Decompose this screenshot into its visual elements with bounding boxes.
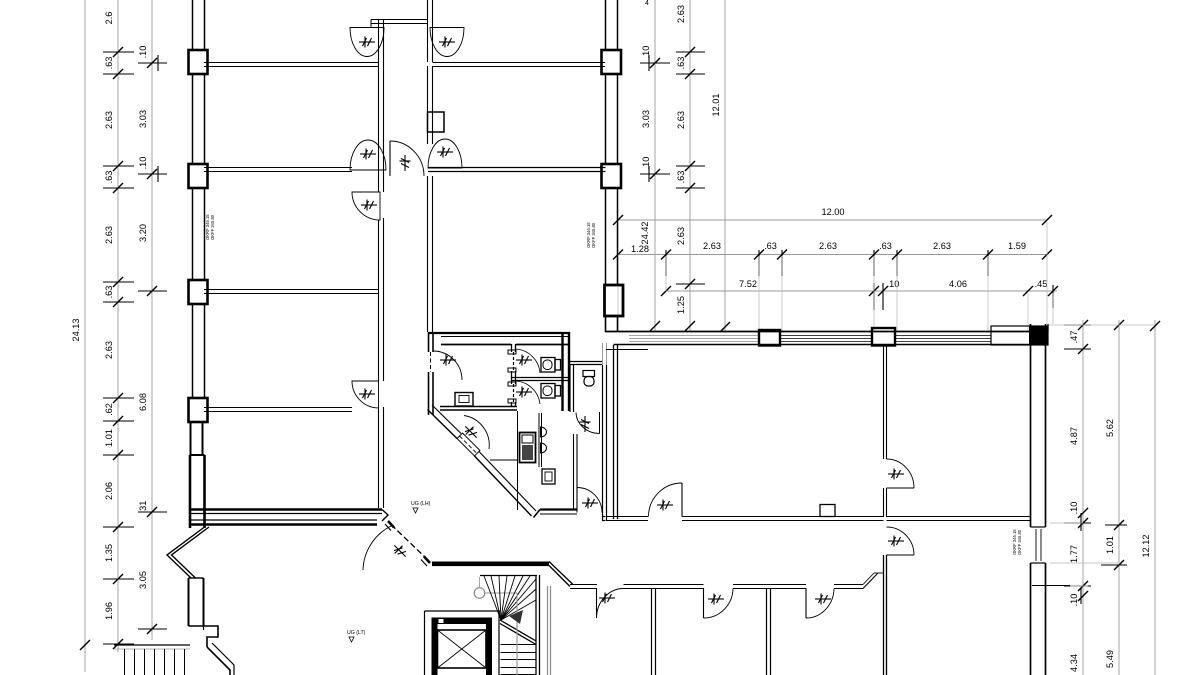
svg-text:4: 4 [645, 0, 649, 7]
svg-text:3.20: 3.20 [138, 224, 148, 242]
svg-text:1.01: 1.01 [104, 429, 114, 447]
svg-text:3.05: 3.05 [138, 571, 148, 589]
svg-text:.10: .10 [641, 46, 651, 59]
svg-text:.63: .63 [104, 286, 114, 299]
svg-text:2.63: 2.63 [676, 227, 686, 245]
svg-text:3.03: 3.03 [641, 110, 651, 128]
svg-text:.10: .10 [138, 46, 148, 59]
svg-text:.10: .10 [887, 279, 900, 289]
svg-text:.10: .10 [138, 157, 148, 170]
svg-text:4.34: 4.34 [1069, 654, 1079, 672]
svg-text:2.63: 2.63 [676, 5, 686, 23]
svg-text:.63: .63 [676, 171, 686, 184]
svg-text:12.00: 12.00 [822, 207, 845, 217]
svg-text:2.63: 2.63 [104, 111, 114, 129]
svg-text:.10: .10 [1069, 594, 1079, 607]
svg-text:2.06: 2.06 [104, 482, 114, 500]
svg-text:1.96: 1.96 [104, 602, 114, 620]
svg-text:.62: .62 [104, 403, 114, 416]
svg-text:.45: .45 [1035, 279, 1048, 289]
svg-text:12.01: 12.01 [711, 94, 721, 117]
svg-text:24.42: 24.42 [640, 222, 650, 245]
svg-text:1.01: 1.01 [1105, 536, 1115, 554]
svg-text:.63: .63 [879, 241, 892, 251]
svg-text:.31: .31 [138, 501, 148, 514]
svg-text:.10: .10 [1069, 502, 1079, 515]
svg-text:4.06: 4.06 [949, 279, 967, 289]
svg-text:.63: .63 [104, 171, 114, 184]
svg-text:12.12: 12.12 [1141, 535, 1151, 558]
svg-text:.63: .63 [764, 241, 777, 251]
svg-text:OKFF 345.80: OKFF 345.80 [1017, 529, 1022, 555]
svg-text:5.49: 5.49 [1105, 650, 1115, 668]
svg-text:1.77: 1.77 [1069, 545, 1079, 563]
svg-text:7.52: 7.52 [739, 279, 757, 289]
svg-text:4.87: 4.87 [1069, 427, 1079, 445]
svg-text:UG (LH): UG (LH) [411, 501, 431, 507]
svg-text:.63: .63 [676, 57, 686, 70]
svg-text:OKFF 345.80: OKFF 345.80 [210, 214, 215, 240]
svg-text:.63: .63 [104, 57, 114, 70]
svg-text:1.25: 1.25 [676, 296, 686, 314]
svg-text:OKFF 345.80: OKFF 345.80 [591, 222, 596, 248]
svg-text:6.08: 6.08 [138, 393, 148, 411]
svg-text:2.63: 2.63 [676, 111, 686, 129]
svg-text:2.63: 2.63 [104, 341, 114, 359]
svg-text:2.63: 2.63 [933, 241, 951, 251]
svg-text:UG (LT): UG (LT) [347, 630, 366, 636]
svg-text:1.35: 1.35 [104, 544, 114, 562]
svg-text:.47: .47 [1069, 331, 1079, 344]
svg-text:24.13: 24.13 [71, 319, 81, 342]
svg-text:2.63: 2.63 [819, 241, 837, 251]
svg-text:2.6: 2.6 [104, 12, 114, 25]
svg-text:2.63: 2.63 [104, 226, 114, 244]
svg-text:1.59: 1.59 [1008, 241, 1026, 251]
svg-text:1.28: 1.28 [631, 244, 649, 254]
svg-text:.10: .10 [641, 157, 651, 170]
svg-text:2.63: 2.63 [703, 241, 721, 251]
svg-text:3.03: 3.03 [138, 110, 148, 128]
svg-text:5.62: 5.62 [1105, 419, 1115, 437]
